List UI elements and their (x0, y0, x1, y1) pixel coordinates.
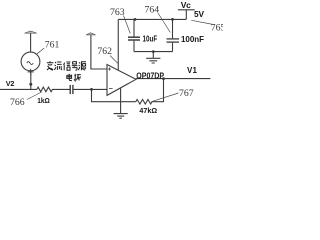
svg-text:766: 766 (10, 97, 25, 108)
svg-text:767: 767 (179, 88, 194, 99)
svg-text:47kΩ: 47kΩ (139, 106, 157, 115)
svg-text:763: 763 (110, 7, 125, 18)
svg-text:5V: 5V (194, 9, 204, 19)
svg-text:10uF: 10uF (143, 33, 158, 43)
svg-text:1kΩ: 1kΩ (37, 96, 50, 105)
svg-text:OP07DP: OP07DP (136, 70, 164, 80)
svg-text:762: 762 (97, 46, 112, 57)
svg-text:V2: V2 (6, 79, 15, 88)
svg-text:764: 764 (145, 5, 160, 16)
svg-text:765: 765 (211, 23, 223, 34)
svg-text:Vc: Vc (181, 0, 191, 10)
svg-text:761: 761 (45, 39, 60, 50)
svg-text:100nF: 100nF (181, 34, 204, 44)
svg-text:V1: V1 (187, 66, 198, 75)
